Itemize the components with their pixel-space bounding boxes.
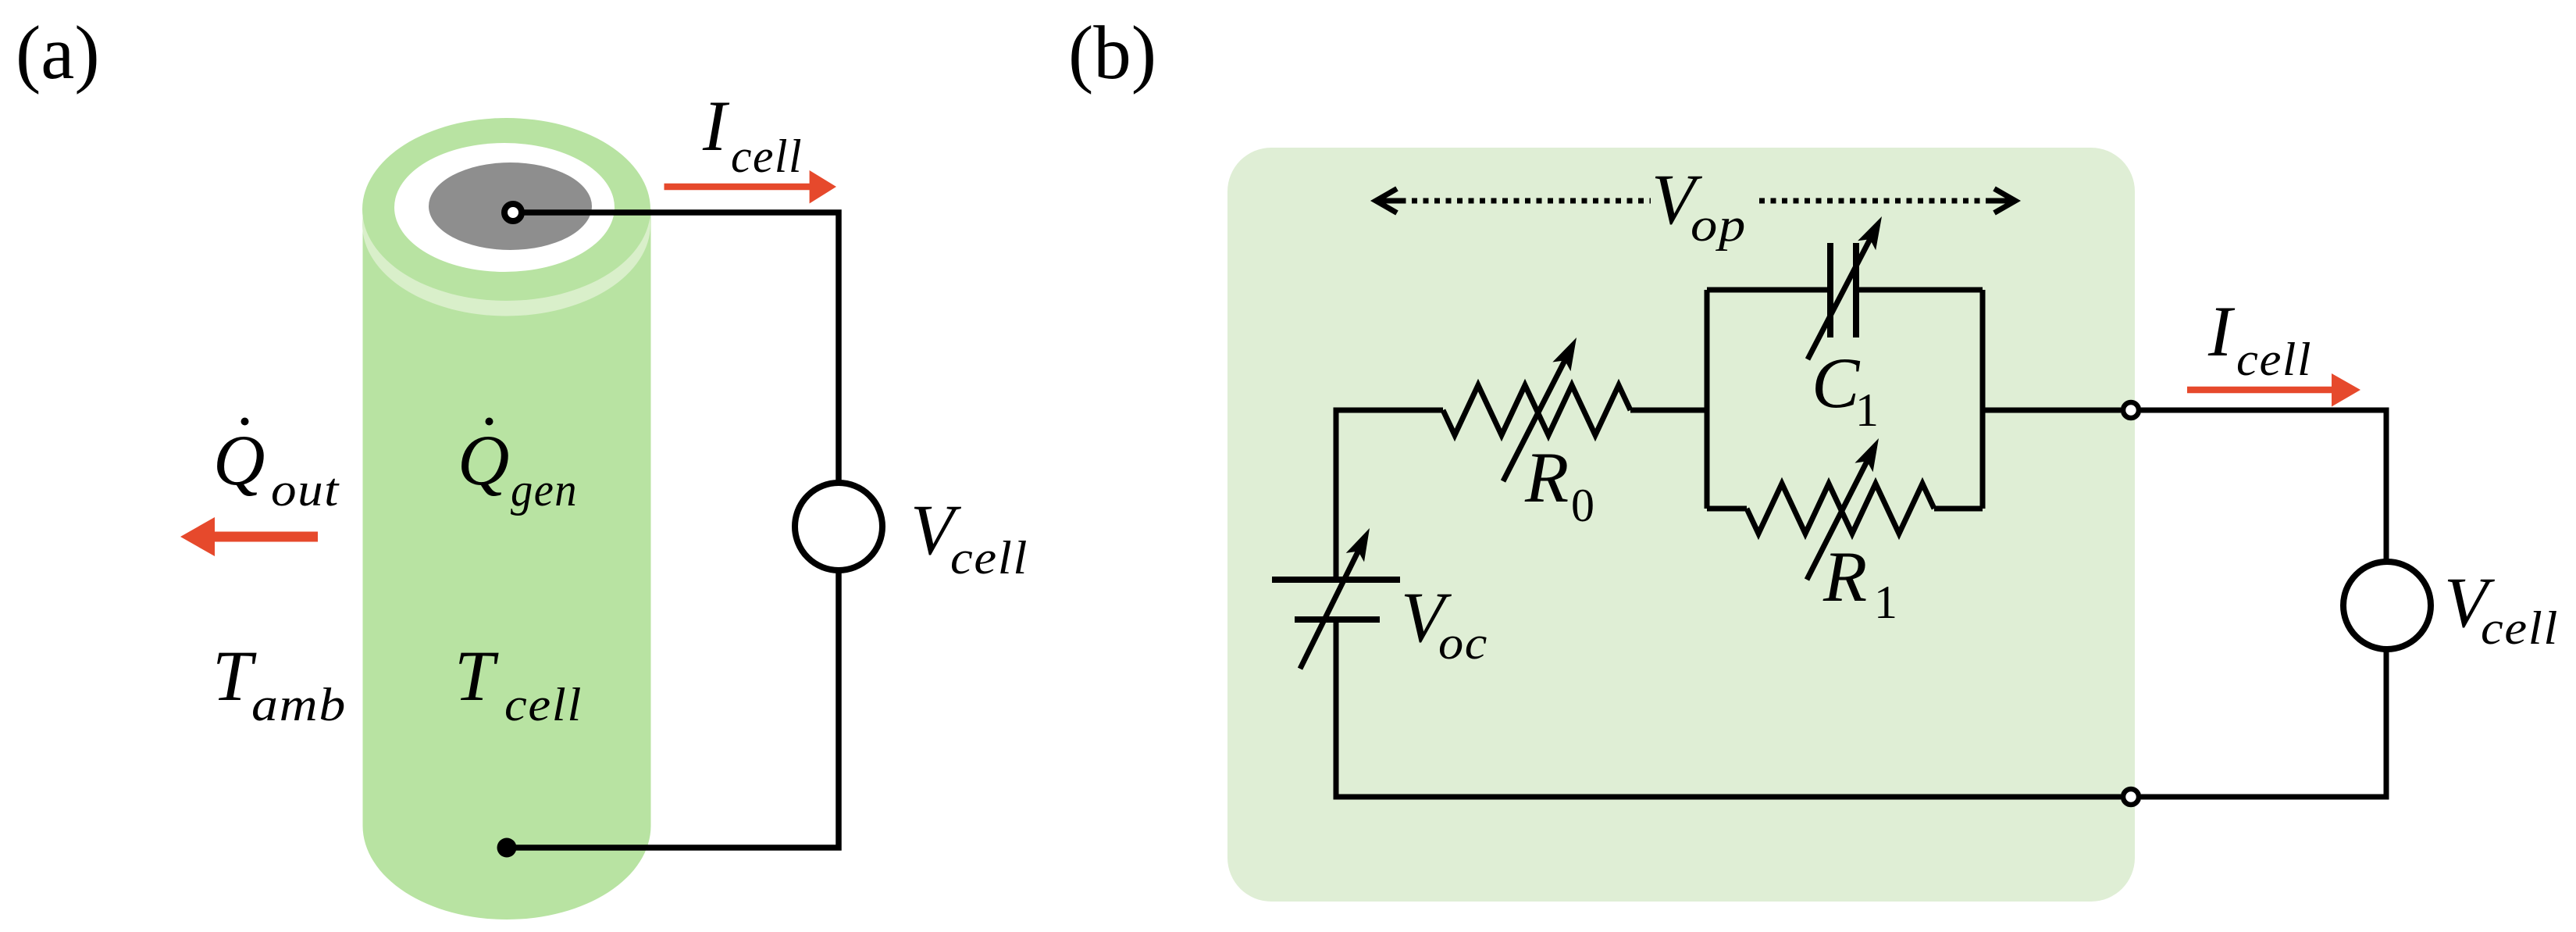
svg-text:oc: oc [1438,617,1488,669]
battery top terminal circle [504,204,522,221]
svg-text:C: C [1812,343,1861,423]
svg-text:cell: cell [2236,334,2312,385]
V_op dotted arrow right [1759,198,2002,204]
current arrow I_cell (a) [664,170,837,204]
negative terminal (b) [2123,789,2139,805]
C1 arrow [1808,237,1871,359]
RC block right side wire [1980,290,1986,509]
panel b background [1227,148,2135,902]
wire: battery top terminal to right [513,212,839,483]
svg-text:Q: Q [213,420,265,500]
V_oc top plate [1272,577,1400,583]
V_oc arrow [1300,549,1359,669]
wire: RC block to positive terminal [1983,408,2121,413]
RC block bottom wires [1707,506,1983,512]
svg-text:cell: cell [2481,602,2559,654]
current arrow I_cell (b) [2187,373,2360,407]
battery bottom terminal dot [497,838,517,858]
svg-text:(b): (b) [1068,11,1156,95]
V_oc bottom plate [1295,616,1380,623]
wire: top-left corner to R0 [1336,410,1443,580]
svg-text:Q: Q [458,420,509,500]
battery top gray electrode [429,162,592,250]
wire: positive terminal to external source [2141,410,2386,562]
dot over Q_gen [486,418,493,426]
wire: external source to negative terminal [2141,649,2386,797]
RC block left side wire [1705,290,1710,509]
heat out red arrow [180,517,318,556]
R0 arrow [1503,359,1566,481]
svg-text:cell: cell [950,532,1028,584]
svg-text:cell: cell [504,679,583,730]
svg-text:T: T [212,636,257,716]
svg-text:(a): (a) [16,11,100,95]
svg-text:R: R [1524,437,1569,517]
svg-text:amb: amb [251,679,347,730]
svg-text:0: 0 [1571,480,1594,531]
positive terminal (b) [2123,402,2139,418]
svg-text:cell: cell [731,130,803,182]
svg-text:gen: gen [511,464,578,516]
battery rim highlight band [362,134,650,316]
dot over Q_out [241,418,249,426]
battery top ellipse [362,118,650,301]
svg-text:I: I [702,86,730,166]
wire: R0 to RC block [1630,408,1707,413]
voltage source V_cell (b) [2343,562,2431,649]
RC block top wires to capacitor [1707,287,1983,293]
svg-text:1: 1 [1855,384,1879,436]
resistor R1 (variable) [1747,484,1934,534]
svg-text:out: out [271,464,340,516]
svg-text:1: 1 [1874,577,1897,628]
svg-text:R: R [1822,537,1867,616]
svg-text:op: op [1691,199,1747,251]
battery cell body (panel a) [363,209,651,920]
battery top white ring [394,143,615,272]
svg-text:T: T [454,636,499,716]
voltage source V_cell (a) [795,483,882,570]
wire: V_oc to bottom-left corner to negative terminal [1336,620,2121,797]
svg-text:I: I [2207,291,2236,371]
R1 arrow [1807,459,1868,580]
resistor R0 (variable) [1443,385,1630,435]
V_op dotted arrow left [1389,198,1651,204]
wire: source bottom to battery bottom [507,570,839,848]
capacitor C1 plates [1830,243,1856,337]
